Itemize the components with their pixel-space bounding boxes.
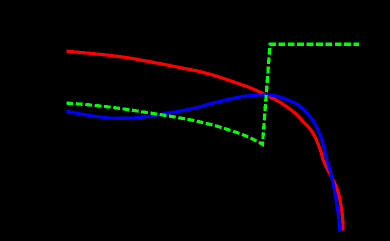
green dashed step curve (decline, vertical jump, flat top) [67,44,360,144]
red curve (solid, declining then steep drop) [67,51,344,230]
blue curve (solid, dip then hump then steep drop) [67,95,340,231]
